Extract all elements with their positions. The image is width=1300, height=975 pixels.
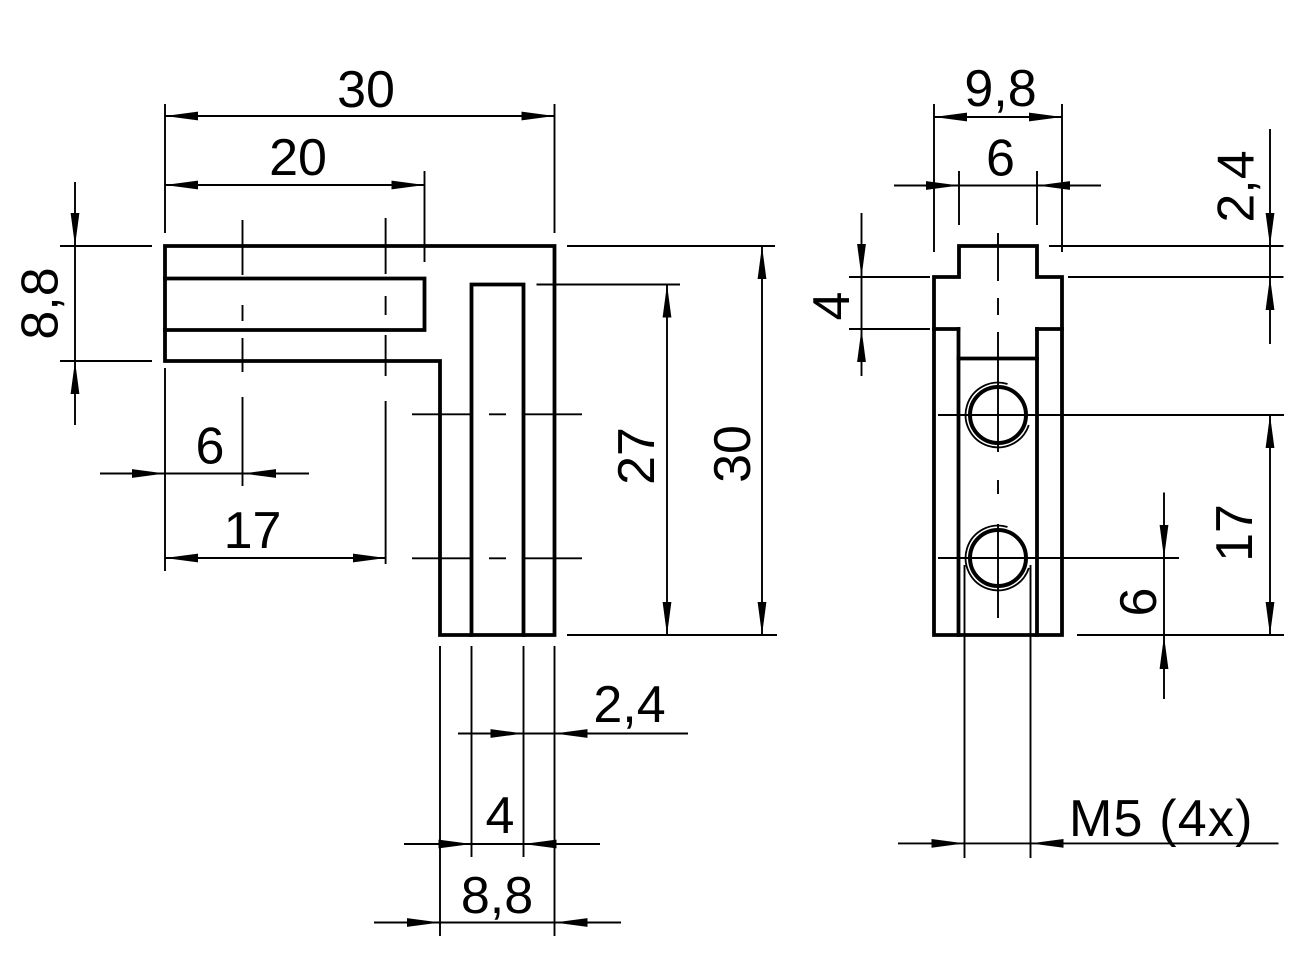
svg-text:4: 4 — [803, 292, 861, 321]
svg-text:17: 17 — [1206, 504, 1264, 562]
svg-text:30: 30 — [337, 61, 395, 119]
svg-text:2,4: 2,4 — [593, 676, 665, 734]
svg-text:9,8: 9,8 — [964, 60, 1036, 118]
svg-text:30: 30 — [704, 425, 762, 483]
svg-text:8,8: 8,8 — [461, 867, 533, 925]
svg-text:8,8: 8,8 — [12, 267, 70, 339]
svg-text:6: 6 — [196, 418, 225, 476]
svg-text:M5 (4x): M5 (4x) — [1069, 790, 1254, 848]
svg-text:20: 20 — [269, 129, 327, 187]
svg-text:2,4: 2,4 — [1208, 150, 1266, 222]
svg-text:4: 4 — [486, 787, 515, 845]
svg-text:27: 27 — [608, 427, 666, 485]
svg-text:6: 6 — [1110, 588, 1168, 617]
svg-text:6: 6 — [986, 130, 1015, 188]
svg-text:17: 17 — [224, 502, 282, 560]
